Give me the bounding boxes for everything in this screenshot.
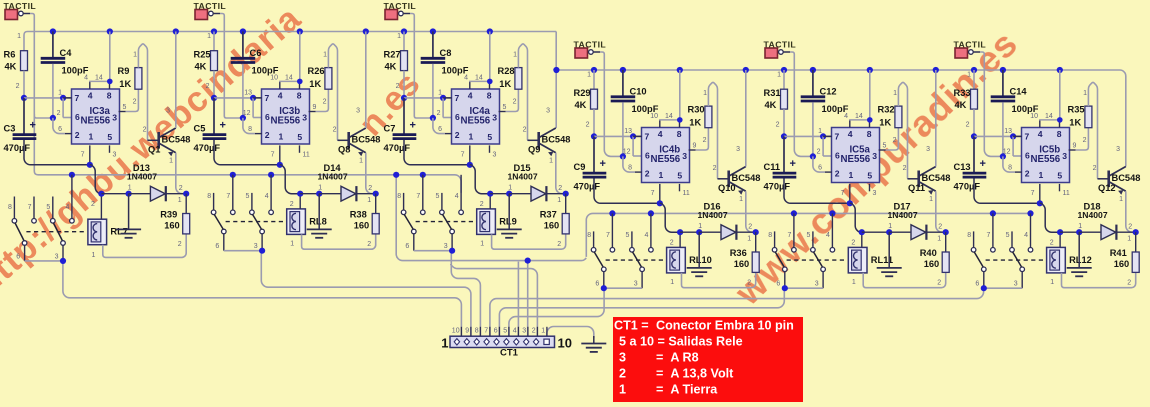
svg-text:470µF: 470µF [954, 182, 981, 192]
svg-text:R33: R33 [954, 88, 971, 98]
svg-text:+: + [980, 158, 986, 170]
resistor R36 160 [755, 232, 757, 252]
wire emitter to relay row stage 3 [556, 153, 566, 194]
svg-text:R39: R39 [160, 210, 177, 220]
svg-text:1: 1 [207, 33, 211, 40]
svg-text:6: 6 [265, 112, 270, 122]
svg-text:3: 3 [493, 152, 497, 159]
relay RL10 [667, 247, 686, 273]
svg-text:1K: 1K [689, 118, 701, 128]
svg-text:2: 2 [523, 127, 527, 134]
svg-text:BC548: BC548 [922, 173, 951, 183]
svg-text:2: 2 [455, 130, 460, 140]
wire output hook to base stage 3 [518, 44, 530, 140]
svg-text:R9: R9 [118, 66, 130, 76]
resistor R35 1K [1076, 128, 1089, 150]
wire relay coil top lead stage 1 [100, 194, 102, 220]
wire output hook to base stage 2 [328, 44, 340, 140]
ground relay row stage 6 [1078, 232, 1080, 268]
svg-text:R31: R31 [764, 88, 781, 98]
resistor R26 1K [316, 89, 329, 111]
wire ground run to relay row stage 3 [470, 165, 490, 194]
wire ground run stage 4 [594, 179, 660, 204]
svg-text:5: 5 [297, 132, 302, 142]
svg-text:= A 13,8 Volt: = A 13,8 Volt [656, 367, 734, 381]
node rail C-top stage 5 [810, 67, 816, 73]
svg-text:3: 3 [112, 113, 117, 123]
resistor R9 1K [126, 89, 139, 111]
wire trigger chain stages 4-6 [586, 213, 1030, 257]
svg-text:1N4007: 1N4007 [127, 172, 157, 182]
diode D15 1N4007 [531, 186, 546, 201]
wire button riser stage 6 [980, 52, 1003, 156]
svg-text:NE556: NE556 [650, 154, 680, 165]
capacitor C6 100pF [242, 32, 244, 58]
resistor R32 1K [886, 128, 899, 150]
linkage dashed stage 1 [26, 231, 87, 233]
svg-text:4K: 4K [5, 62, 17, 72]
wire relay bottom to R39 stage 1 [103, 234, 186, 258]
capacitor C5 470uF [213, 98, 215, 134]
svg-text:1: 1 [397, 33, 401, 40]
svg-text:10: 10 [558, 336, 572, 351]
svg-text:8: 8 [768, 232, 772, 239]
svg-text:BC548: BC548 [542, 135, 571, 145]
svg-text:BC548: BC548 [732, 173, 761, 183]
node rail Q-collector stage 2 [363, 28, 369, 34]
svg-text:2: 2 [835, 169, 840, 179]
wire collector riser stage 1 [175, 32, 177, 129]
resistor R31 4K [783, 70, 785, 89]
svg-text:3: 3 [166, 108, 170, 115]
capacitor C10 100pF [622, 70, 624, 96]
op-amp timer IC5b NE556 [1022, 128, 1070, 183]
transistor Q8 BC548 [338, 139, 349, 141]
connector CT1 [450, 336, 555, 347]
svg-text:3: 3 [1062, 151, 1067, 161]
svg-text:RL10: RL10 [689, 255, 712, 265]
wire reset/vcc bracket stage 4 [659, 120, 661, 128]
op-amp timer IC4b NE556 [642, 128, 690, 183]
ground relay row stage 3 [508, 194, 510, 230]
resistor R37 160 [565, 194, 567, 214]
svg-text:5: 5 [503, 327, 507, 334]
node chain-contact [829, 210, 835, 216]
svg-text:4K: 4K [765, 100, 777, 110]
node rail C-top stage 2 [240, 28, 246, 34]
wire emitter to relay row stage 4 [746, 191, 756, 232]
wire reset/vcc bracket stage 2 [279, 81, 281, 89]
svg-text:2: 2 [368, 185, 372, 192]
svg-text:2: 2 [713, 165, 717, 172]
svg-text:R26: R26 [308, 66, 325, 76]
svg-text:11: 11 [303, 152, 310, 159]
wire contact common stage 2 [223, 234, 225, 251]
svg-text:4: 4 [848, 129, 853, 139]
svg-text:2: 2 [938, 224, 942, 231]
wire IC ground lead stage 1 [89, 145, 91, 164]
svg-text:Conector Embra 10 pin: Conector Embra 10 pin [656, 319, 794, 333]
svg-text:6: 6 [438, 126, 442, 133]
wire emitter to relay row stage 6 [1126, 191, 1136, 232]
svg-text:1: 1 [1119, 196, 1123, 203]
linkage dashed stage 5 [787, 259, 848, 261]
svg-text:1: 1 [777, 72, 781, 79]
svg-text:8: 8 [297, 91, 302, 101]
wire reset/vcc bracket stage 6 [1039, 120, 1041, 128]
svg-text:5: 5 [123, 104, 127, 111]
svg-text:6: 6 [75, 112, 80, 122]
wire relay coil top lead stage 3 [489, 194, 491, 209]
wire contact common stage 5 [784, 272, 786, 289]
node trigger stage 4 [620, 153, 626, 159]
svg-text:4: 4 [644, 232, 648, 239]
switch relay contacts stage 6 [973, 231, 975, 247]
svg-text:R38: R38 [350, 210, 367, 220]
svg-text:1K: 1K [1069, 118, 1081, 128]
svg-text:1: 1 [549, 158, 553, 165]
svg-text:1: 1 [1078, 223, 1082, 230]
svg-text:4: 4 [65, 204, 69, 211]
svg-text:3: 3 [302, 113, 307, 123]
svg-text:2: 2 [1128, 224, 1132, 231]
svg-text:1: 1 [619, 383, 626, 397]
svg-text:2: 2 [396, 83, 400, 90]
svg-text:2: 2 [937, 280, 941, 287]
svg-text:11: 11 [683, 190, 690, 197]
switch relay contacts stage 5 [774, 231, 776, 247]
svg-text:1N4007: 1N4007 [318, 172, 348, 182]
svg-text:13: 13 [624, 128, 632, 135]
svg-text:6: 6 [835, 151, 840, 161]
svg-text:2: 2 [1025, 169, 1030, 179]
svg-text:3: 3 [815, 281, 819, 288]
svg-text:R35: R35 [1068, 105, 1085, 115]
ground relay row stage 1 [128, 194, 130, 230]
node rail IC-vcc stage 1 [107, 28, 113, 34]
svg-text:2: 2 [645, 169, 650, 179]
svg-text:7: 7 [81, 152, 85, 159]
svg-text:2: 2 [747, 280, 751, 287]
svg-text:R27: R27 [384, 50, 401, 60]
svg-text:2: 2 [557, 241, 561, 248]
diode D13 1N4007 [150, 186, 165, 201]
svg-text:2: 2 [323, 99, 327, 106]
svg-text:C4: C4 [60, 48, 73, 58]
svg-text:5: 5 [487, 132, 492, 142]
svg-text:7: 7 [75, 93, 80, 103]
resistor R28 1K [506, 89, 519, 111]
wire relay6 common to CT1 pin7 [490, 288, 984, 336]
svg-text:7: 7 [455, 93, 460, 103]
svg-text:R28: R28 [498, 66, 515, 76]
svg-text:2: 2 [748, 224, 752, 231]
node chain-contact [69, 172, 75, 178]
node trigger stage 1 [50, 115, 56, 121]
capacitor C8 100pF [432, 32, 434, 58]
wire output hook to base stage 5 [898, 82, 910, 178]
wire Vcc rail stages 1-3 [24, 32, 556, 51]
svg-text:7: 7 [226, 193, 230, 200]
resistor R41 160 [1135, 232, 1137, 252]
wire ground run to relay row stage 1 [90, 165, 102, 194]
wire R8 net horizontal [396, 175, 586, 261]
svg-text:1N4007: 1N4007 [698, 210, 728, 220]
svg-text:R32: R32 [878, 105, 895, 115]
svg-text:8: 8 [107, 91, 112, 101]
op-amp timer IC3a NE556 [72, 89, 120, 144]
wire ground run to relay row stage 5 [850, 203, 862, 232]
svg-text:7: 7 [461, 152, 465, 159]
svg-text:9: 9 [313, 104, 317, 111]
svg-text:R29: R29 [574, 88, 591, 98]
transistor Q9 BC548 [528, 139, 539, 141]
svg-text:2: 2 [75, 130, 80, 140]
svg-text:1K: 1K [119, 79, 131, 89]
svg-text:14: 14 [855, 113, 863, 120]
svg-text:7: 7 [841, 190, 845, 197]
resistor R38 160 [375, 194, 377, 214]
svg-text:1K: 1K [499, 79, 511, 89]
wire ground run stage 2 [214, 140, 280, 165]
wire relay coil top lead stage 6 [1059, 232, 1061, 247]
svg-text:1: 1 [290, 240, 294, 247]
node chain-contact [230, 172, 236, 178]
svg-text:2: 2 [513, 99, 517, 106]
svg-text:14: 14 [95, 75, 103, 82]
svg-text:8: 8 [248, 126, 252, 133]
svg-text:4: 4 [658, 129, 663, 139]
svg-text:2: 2 [290, 201, 294, 208]
wire relay3 common to CT1 pin8 [451, 251, 480, 337]
wire relay bottom to R41 stage 6 [1062, 272, 1136, 287]
svg-text:6: 6 [405, 243, 409, 250]
svg-text:1: 1 [852, 279, 856, 286]
svg-text:9: 9 [1073, 143, 1077, 150]
svg-text:1: 1 [359, 158, 363, 165]
capacitor C3 470uF [23, 98, 25, 134]
svg-text:5: 5 [107, 132, 112, 142]
svg-text:8: 8 [677, 129, 682, 139]
svg-text:2: 2 [703, 137, 707, 144]
wire relay bottom to R36 stage 4 [682, 272, 756, 287]
svg-text:8: 8 [587, 232, 591, 239]
svg-text:+: + [790, 158, 796, 170]
svg-text:Q10: Q10 [718, 183, 736, 193]
svg-text:5: 5 [46, 204, 50, 211]
node rail R-top stage 3 [401, 28, 407, 34]
svg-text:6: 6 [776, 281, 780, 288]
svg-text:4: 4 [826, 232, 830, 239]
svg-text:10: 10 [650, 113, 658, 120]
svg-text:8: 8 [487, 91, 492, 101]
svg-text:1: 1 [888, 223, 892, 230]
node common stage 5 [782, 285, 788, 291]
wire output hook to base stage 6 [1088, 82, 1100, 178]
node common stage 2 [259, 248, 265, 254]
node rail R-top stage 6 [971, 67, 977, 73]
svg-text:1: 1 [557, 197, 561, 204]
svg-text:14: 14 [665, 113, 673, 120]
svg-text:7: 7 [416, 193, 420, 200]
svg-text:1: 1 [1083, 90, 1087, 97]
relay RL8 [287, 209, 306, 235]
svg-text:1: 1 [367, 197, 371, 204]
node chain-contact [791, 210, 797, 216]
capacitor C13 470uF [973, 136, 975, 172]
svg-text:6: 6 [975, 281, 979, 288]
node rail IC-vcc stage 6 [1057, 67, 1063, 73]
svg-text:C10: C10 [630, 87, 647, 97]
node chain-contact [1027, 210, 1033, 216]
svg-text:5: 5 [867, 171, 872, 181]
svg-text:4: 4 [468, 91, 473, 101]
svg-text:BC548: BC548 [162, 135, 191, 145]
wire collector riser stage 5 [935, 70, 937, 167]
svg-text:3: 3 [522, 327, 526, 334]
svg-text:470µF: 470µF [574, 182, 601, 192]
wire relay4 common to CT1 pin5 [509, 288, 604, 336]
svg-text:7: 7 [271, 152, 275, 159]
svg-text:1: 1 [1050, 279, 1054, 286]
svg-text:2: 2 [903, 165, 907, 172]
svg-text:12: 12 [243, 110, 251, 117]
node trigger stage 5 [810, 153, 816, 159]
node common stage 6 [981, 285, 987, 291]
wire output hook to base stage 1 [138, 44, 150, 140]
svg-text:6: 6 [818, 165, 822, 172]
svg-text:7: 7 [986, 232, 990, 239]
wire CT1 pin3 drop [527, 261, 529, 337]
svg-text:2: 2 [851, 240, 855, 247]
svg-text:C5: C5 [194, 124, 206, 134]
node rail IC-vcc stage 5 [867, 67, 873, 73]
wire relay coil top lead stage 2 [299, 194, 301, 209]
wire contact common stage 6 [983, 272, 985, 289]
svg-text:5: 5 [883, 143, 887, 150]
connector CT1 pin leads and labels [460, 327, 462, 336]
svg-text:470µF: 470µF [194, 143, 221, 153]
node timing stage 2 [211, 95, 217, 101]
svg-text:8: 8 [967, 232, 971, 239]
node rail IC-vcc stage 3 [487, 28, 493, 34]
node rail IC-vcc stage 2 [297, 28, 303, 34]
relay RL7 [88, 219, 107, 245]
svg-text:5 a 10 = Salidas Rele: 5 a 10 = Salidas Rele [619, 335, 743, 349]
node rail Q-collector stage 1 [173, 28, 179, 34]
node timing stage 3 [401, 95, 407, 101]
svg-text:Q11: Q11 [908, 183, 925, 193]
svg-text:1: 1 [849, 170, 854, 180]
svg-text:3: 3 [113, 152, 117, 159]
svg-text:2: 2 [437, 110, 441, 117]
wire relay coil top lead stage 5 [861, 232, 863, 247]
svg-text:3: 3 [492, 113, 497, 123]
svg-text:C7: C7 [384, 124, 396, 134]
svg-text:9: 9 [693, 143, 697, 150]
resistor R27 4K [403, 32, 405, 51]
svg-text:4K: 4K [385, 62, 397, 72]
wire collector riser stage 4 [745, 70, 747, 167]
svg-text:C9: C9 [574, 162, 586, 172]
svg-text:1: 1 [670, 279, 674, 286]
svg-text:8: 8 [867, 129, 872, 139]
svg-text:4: 4 [464, 75, 468, 82]
wire diode row stage 3 [487, 191, 493, 197]
svg-text:4K: 4K [955, 100, 967, 110]
svg-text:1: 1 [58, 90, 62, 97]
svg-text:NE556: NE556 [840, 154, 870, 165]
svg-text:NE556: NE556 [1030, 154, 1060, 165]
svg-text:1: 1 [323, 52, 327, 59]
switch relay contacts stage 4 [593, 231, 595, 247]
svg-text:7: 7 [645, 132, 650, 142]
linkage dashed stage 2 [226, 221, 286, 223]
svg-text:2: 2 [586, 122, 590, 129]
svg-text:+: + [220, 119, 226, 131]
svg-text:1: 1 [133, 52, 137, 59]
svg-text:7: 7 [28, 204, 32, 211]
svg-text:12: 12 [1003, 149, 1011, 156]
svg-text:5: 5 [245, 193, 249, 200]
wire CT1 pin1 to ground [547, 327, 594, 339]
node chain-contact [648, 210, 654, 216]
svg-text:470µF: 470µF [764, 182, 791, 192]
svg-text:6: 6 [215, 243, 219, 250]
svg-text:2: 2 [178, 241, 182, 248]
svg-text:3: 3 [682, 151, 687, 161]
wire diode row stage 4 [677, 229, 683, 235]
svg-text:R37: R37 [540, 210, 557, 220]
node rail R-top stage 2 [211, 28, 217, 34]
svg-text:7: 7 [787, 232, 791, 239]
svg-text:8: 8 [397, 193, 401, 200]
wire button riser stage 4 [600, 52, 623, 156]
node timing stage 4 [591, 133, 597, 139]
svg-text:6: 6 [645, 151, 650, 161]
svg-text:4: 4 [84, 75, 88, 82]
capacitor C11 470uF [783, 136, 785, 172]
node common stage 3 [449, 248, 455, 254]
svg-text:470µF: 470µF [384, 143, 411, 153]
svg-text:6: 6 [16, 253, 20, 260]
resistor R30 1K [696, 128, 709, 150]
svg-text:1: 1 [91, 252, 95, 259]
svg-text:1: 1 [703, 90, 707, 97]
svg-text:9: 9 [465, 327, 469, 334]
svg-text:+: + [30, 119, 36, 131]
wire relay bottom to R40 stage 5 [863, 272, 946, 287]
svg-text:470µF: 470µF [4, 143, 31, 153]
wire reset/vcc bracket stage 3 [469, 81, 471, 89]
wire IC ground lead stage 6 [1039, 184, 1041, 203]
svg-text:R40: R40 [920, 248, 937, 258]
svg-text:1: 1 [929, 196, 933, 203]
svg-text:RL8: RL8 [309, 216, 327, 226]
svg-text:2: 2 [776, 122, 780, 129]
node trigger stage 6 [1000, 153, 1006, 159]
svg-text:3: 3 [736, 146, 740, 153]
svg-text:6: 6 [455, 112, 460, 122]
wire emitter to relay row stage 2 [366, 153, 376, 194]
resistor R40 160 [945, 232, 947, 252]
svg-text:160: 160 [354, 221, 370, 231]
diode D16 1N4007 [721, 225, 736, 240]
node chain-contact [990, 210, 996, 216]
svg-text:Q1: Q1 [148, 145, 160, 155]
resistor R33 4K [973, 70, 975, 89]
capacitor C4 100pF [52, 32, 54, 58]
